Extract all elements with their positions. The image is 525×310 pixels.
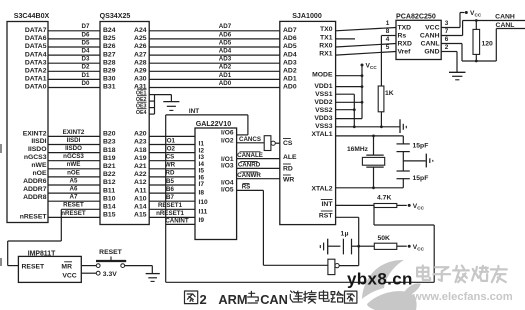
- wire row 5 (U2 A22 to U4 GAL): [149, 176, 195, 178]
- wire RS (U4 I/O5 to reset inverter): [237, 189, 264, 191]
- svg-text:RX0: RX0: [319, 42, 332, 49]
- svg-text:B19: B19: [103, 155, 116, 162]
- inverter gate U6 (CANCS to CS): [264, 136, 271, 151]
- wire nWE (CPU to U2): [48, 168, 100, 170]
- wire TX0 (U3 TX0 to U7 TXD pin1): [336, 28, 396, 31]
- ground (OE pins): [163, 101, 179, 103]
- wire row 8 (U2 A10 to U4 GAL): [149, 200, 195, 202]
- svg-text:6: 6: [445, 36, 449, 43]
- wire CANL net: [441, 43, 462, 45]
- svg-text:B31: B31: [103, 84, 116, 91]
- svg-text:A24: A24: [134, 27, 147, 34]
- svg-text:CANH: CANH: [420, 33, 440, 40]
- svg-text:INT: INT: [189, 108, 199, 115]
- wire nGCS3 (CPU to U2): [48, 160, 100, 162]
- svg-text:nGCS3: nGCS3: [63, 153, 84, 160]
- wire AD2 (U2 A29 to U3 AD2): [149, 70, 280, 72]
- svg-text:CC: CC: [370, 65, 377, 70]
- svg-text:CAN: CAN: [260, 292, 288, 307]
- wire U5 VCC to 3.3V: [81, 272, 96, 274]
- wire D4 (CPU DATA4 to U2 B27): [48, 54, 100, 56]
- svg-text:B5: B5: [166, 178, 174, 185]
- svg-text:VDD2: VDD2: [314, 99, 332, 106]
- svg-text:4.7K: 4.7K: [377, 195, 391, 202]
- svg-text:CC: CC: [417, 246, 424, 251]
- wires OE1-OE4 tie to ground: [149, 94, 154, 96]
- wire CANH net: [441, 35, 462, 37]
- wire VDD1: [336, 86, 362, 88]
- wire D1 (CPU DATA1 to U2 B30): [48, 78, 100, 80]
- wire button to ground: [125, 265, 153, 267]
- wire INT vertical at x=166: [165, 115, 167, 282]
- svg-text:A22: A22: [134, 171, 147, 178]
- wire XTAL2: [336, 187, 404, 189]
- resistor R4 50K (reset pull-up): [359, 245, 375, 247]
- svg-text:B27: B27: [103, 51, 116, 58]
- svg-text:AD1: AD1: [283, 76, 297, 83]
- svg-text:AD2: AD2: [283, 68, 297, 75]
- wire row 10 (U2 A15 to U4 GAL): [149, 216, 195, 218]
- svg-text:I10: I10: [199, 199, 208, 206]
- svg-text:I/O4: I/O4: [221, 179, 234, 186]
- svg-text:B12: B12: [103, 179, 116, 186]
- wire AD3 (U2 A28 to U3 AD3): [149, 62, 280, 64]
- svg-text:AD6: AD6: [283, 35, 297, 42]
- wire U7 VCC to supply: [441, 27, 460, 29]
- wire row 0 (U2 A20 to U4 GAL): [149, 135, 195, 137]
- svg-text:IO1: IO1: [165, 137, 176, 144]
- svg-text:DATA3: DATA3: [25, 59, 47, 66]
- svg-text:DATA0: DATA0: [25, 84, 47, 91]
- svg-text:B26: B26: [103, 43, 116, 50]
- wire AD7 (U2 A24 to U3 AD7): [149, 30, 280, 32]
- svg-text:16MHz: 16MHz: [347, 146, 369, 153]
- svg-text:IISDO: IISDO: [28, 146, 47, 153]
- svg-text:B22: B22: [103, 171, 116, 178]
- svg-text:D1: D1: [82, 72, 90, 79]
- ground (reset button): [146, 273, 160, 275]
- wire RST pin down to reset node: [336, 216, 359, 218]
- svg-text:RESET: RESET: [22, 264, 46, 271]
- wire AD0 (U2 A31 to U3 AD0): [149, 87, 280, 89]
- svg-text:I/O6: I/O6: [221, 130, 234, 137]
- svg-text:B29: B29: [103, 68, 116, 75]
- wire row 7 (U2 A11 to U4 GAL): [149, 192, 195, 194]
- svg-text:I/O3: I/O3: [221, 163, 234, 170]
- svg-text:A7: A7: [70, 194, 78, 201]
- svg-text:A18: A18: [134, 147, 147, 154]
- wire Rs pin to R2 1K: [381, 35, 396, 37]
- wire VSS2: [336, 109, 355, 111]
- svg-text:D2: D2: [82, 64, 90, 71]
- svg-text:D0: D0: [82, 80, 90, 87]
- svg-text:RS: RS: [242, 184, 251, 191]
- capacitor C3 1u (reset): [328, 245, 341, 247]
- IC U4 GAL22V10 (address decoder PLD): [195, 128, 237, 240]
- svg-text:GND: GND: [424, 49, 439, 56]
- svg-text:ybx8.cn: ybx8.cn: [347, 270, 413, 289]
- svg-text:OE4: OE4: [136, 110, 147, 116]
- svg-text:Rs: Rs: [398, 33, 407, 40]
- svg-text:AD0: AD0: [219, 80, 232, 87]
- svg-text:CANALE: CANALE: [237, 152, 263, 159]
- svg-text:4: 4: [386, 36, 390, 43]
- svg-text:GAL22V10: GAL22V10: [196, 120, 232, 128]
- svg-text:B24: B24: [103, 27, 116, 34]
- resistor R1 120 (CAN bus termination): [475, 19, 478, 22]
- svg-text:AD1: AD1: [219, 72, 232, 79]
- VCC symbol (INT pull-up): [408, 204, 411, 207]
- svg-text:AD6: AD6: [219, 31, 232, 38]
- svg-text:INT: INT: [322, 201, 334, 208]
- IC U2 QS34X25 (bus switch): [100, 22, 149, 225]
- svg-text:PCA82C250: PCA82C250: [396, 12, 436, 20]
- wire VCC rail to VDD pins: [361, 65, 363, 119]
- wire D5 (CPU DATA5 to U2 B26): [48, 46, 100, 48]
- svg-text:A10: A10: [134, 195, 147, 202]
- svg-text:nRESET: nRESET: [20, 213, 48, 220]
- svg-text:B18: B18: [103, 147, 116, 154]
- svg-text:RST: RST: [319, 213, 333, 220]
- svg-text:D3: D3: [82, 56, 90, 63]
- svg-text:nRESET1: nRESET1: [156, 210, 184, 217]
- wire VDD2: [336, 101, 362, 103]
- wire D0 (CPU DATA0 to U2 B31): [48, 87, 100, 89]
- wire A7 (CPU to U2): [48, 200, 100, 202]
- svg-text:DATA5: DATA5: [25, 43, 47, 50]
- svg-text:CS: CS: [283, 140, 293, 147]
- svg-text:A15: A15: [134, 212, 147, 219]
- svg-text:B20: B20: [103, 131, 116, 138]
- svg-text:MODE: MODE: [312, 72, 333, 79]
- svg-text:ARM: ARM: [218, 292, 247, 307]
- svg-text:B25: B25: [103, 35, 116, 42]
- svg-text:nOE: nOE: [67, 169, 80, 176]
- wire AD4 (U2 A27 to U3 AD4): [149, 54, 280, 56]
- svg-text:MR: MR: [61, 264, 72, 271]
- wire EXINT2 (CPU to U2): [48, 135, 100, 137]
- wire VSS1: [336, 93, 355, 95]
- svg-text:nWE: nWE: [31, 162, 47, 169]
- svg-text:WR: WR: [165, 162, 176, 169]
- svg-text:15pF: 15pF: [413, 175, 429, 182]
- svg-text:IISDI: IISDI: [31, 138, 46, 145]
- svg-text:I/O5: I/O5: [221, 187, 234, 194]
- svg-text:A21: A21: [134, 163, 147, 170]
- svg-text:ADDR6: ADDR6: [23, 178, 47, 185]
- VCC symbol (reset pull-up): [408, 245, 411, 248]
- svg-text:A26: A26: [134, 43, 147, 50]
- svg-text:A5: A5: [70, 177, 78, 184]
- svg-text:RXD: RXD: [398, 41, 412, 48]
- svg-text:AD4: AD4: [283, 51, 297, 58]
- wire row 2 (U2 A18 to U4 GAL): [149, 152, 195, 154]
- svg-text:120: 120: [482, 41, 494, 48]
- svg-text:B7: B7: [166, 194, 174, 201]
- wire CANWR (U4 I/O4 to U3 WR): [237, 178, 280, 180]
- svg-text:CANH: CANH: [495, 14, 515, 21]
- wire D7 (CPU DATA7 to U2 B24): [48, 30, 100, 32]
- wire RX1 (U3 RX1 to U7 Vref pin5): [336, 52, 396, 56]
- ground (VSS, right-facing): [399, 119, 401, 133]
- svg-text:EXINT2: EXINT2: [63, 129, 85, 136]
- wire row 9 (U2 A14 to U4 GAL): [149, 208, 195, 210]
- svg-text:B21: B21: [103, 163, 116, 170]
- svg-text:I9: I9: [199, 217, 205, 224]
- svg-text:VCC: VCC: [62, 273, 76, 280]
- svg-text:CANWR: CANWR: [237, 172, 261, 179]
- svg-text:1K: 1K: [385, 90, 394, 97]
- svg-text:7: 7: [445, 28, 449, 35]
- pushbutton S1 RESET: [96, 264, 100, 268]
- svg-text:A14: A14: [134, 204, 147, 211]
- svg-text:TX0: TX0: [320, 26, 333, 33]
- resistor R2 1K (Rs slope control): [378, 86, 384, 112]
- wire U5 MR to reset button: [81, 265, 96, 267]
- svg-text:A20: A20: [134, 131, 147, 138]
- svg-text:RESET1: RESET1: [158, 202, 183, 209]
- wire IISDO (CPU to U2): [48, 152, 100, 154]
- svg-text:DATA4: DATA4: [25, 51, 47, 58]
- svg-text:A27: A27: [134, 51, 147, 58]
- wire row 6 (U2 A12 to U4 GAL): [149, 184, 195, 186]
- svg-text:3.3V: 3.3V: [103, 271, 117, 278]
- svg-text:I7: I7: [199, 181, 205, 188]
- VCC symbol (MODE/VDD): [361, 64, 364, 67]
- wire TX1 stub: [336, 38, 355, 40]
- wire CANRD (U4 I/O3 to U3 RD): [237, 167, 280, 169]
- svg-text:μ: μ: [345, 231, 349, 238]
- svg-text:RESET: RESET: [99, 249, 123, 256]
- svg-text:A28: A28: [134, 59, 147, 66]
- svg-text:VDD3: VDD3: [314, 115, 332, 122]
- svg-text:A11: A11: [134, 187, 146, 194]
- svg-text:AD3: AD3: [283, 59, 297, 66]
- svg-text:WR: WR: [283, 177, 294, 184]
- svg-text:XTAL2: XTAL2: [311, 186, 332, 193]
- wire XTAL1: [336, 135, 404, 137]
- wire VSS3 / ground rail: [336, 126, 400, 128]
- watermark text dianzifashaoyou: [417, 266, 430, 280]
- wire row 4 (U2 A21 to U4 GAL): [149, 168, 195, 170]
- svg-text:I/O2: I/O2: [221, 138, 234, 145]
- svg-text:8: 8: [386, 28, 390, 35]
- svg-text:AD3: AD3: [219, 56, 232, 63]
- svg-text:CANL: CANL: [496, 22, 515, 29]
- IC U1 S3C44B0X (ARM CPU): [7, 22, 48, 223]
- svg-text:ADDR8: ADDR8: [23, 194, 47, 201]
- caption fig2: [185, 291, 198, 304]
- wire INT (U4 I/O6 feedback net): [237, 134, 248, 136]
- svg-text:AD5: AD5: [283, 43, 297, 50]
- wire AD5 (U2 A26 to U3 AD5): [149, 46, 280, 48]
- wire CANCS (U4 I/O2 to inverter): [237, 142, 265, 144]
- wire D2 (CPU DATA2 to U2 B29): [48, 70, 100, 72]
- svg-text:nRESET: nRESET: [61, 210, 86, 217]
- svg-text:RESET: RESET: [63, 202, 84, 209]
- IC U5 IMP811T (reset supervisor): [18, 256, 81, 282]
- svg-text:3: 3: [445, 20, 449, 27]
- svg-text:XTAL1: XTAL1: [311, 131, 332, 138]
- svg-text:D7: D7: [82, 23, 90, 30]
- svg-text:RD: RD: [166, 170, 175, 177]
- wire INT pin to R3: [336, 204, 374, 206]
- svg-text:ADDR7: ADDR7: [23, 186, 47, 193]
- wire CANALE (U4 I/O1 to U3 ALE): [237, 158, 280, 160]
- wire IISDI (CPU to U2): [48, 144, 100, 146]
- svg-text:CS: CS: [166, 154, 175, 161]
- inverter gate U8 (RS to RST): [263, 264, 328, 266]
- ground (reset RC, left-facing): [327, 239, 329, 255]
- svg-text:50K: 50K: [378, 235, 391, 242]
- svg-text:A23: A23: [134, 139, 147, 146]
- svg-text:CANL: CANL: [421, 41, 440, 48]
- svg-text:SJA1000: SJA1000: [292, 12, 322, 20]
- svg-text:VCC: VCC: [425, 25, 439, 32]
- wire U5 RESET output jog up to RESET net: [8, 265, 19, 267]
- wire D6 (CPU DATA6 to U2 B25): [48, 38, 100, 40]
- wire nRESET (CPU to U2): [48, 216, 100, 218]
- svg-text:IO2: IO2: [165, 145, 176, 152]
- wire AD6 (U2 A25 to U3 AD6): [149, 38, 280, 40]
- svg-text:AD0: AD0: [283, 84, 297, 91]
- svg-text:B30: B30: [103, 76, 116, 83]
- wire row 1 (U2 A23 to U4 GAL): [149, 144, 195, 146]
- svg-text:D5: D5: [82, 39, 90, 46]
- watermark logo circle: [362, 260, 404, 299]
- svg-text:RD: RD: [283, 166, 293, 173]
- svg-text:2: 2: [445, 44, 449, 51]
- svg-text:www.elecfans.com: www.elecfans.com: [412, 291, 513, 303]
- wire CANINT (INT net to U4 I9): [166, 223, 195, 225]
- svg-text:A29: A29: [134, 68, 147, 75]
- svg-text:DATA7: DATA7: [25, 27, 47, 34]
- svg-text:D6: D6: [82, 31, 90, 38]
- wire INT bottom run: [166, 281, 435, 283]
- svg-text:IISDI: IISDI: [67, 137, 81, 144]
- svg-text:VDD1: VDD1: [314, 83, 332, 90]
- wire AD1 (U2 A30 to U3 AD1): [149, 78, 280, 80]
- capacitor C2 15pF (XTAL2): [402, 152, 404, 171]
- svg-text:VSS3: VSS3: [315, 123, 333, 130]
- svg-text:CANINT: CANINT: [165, 217, 189, 224]
- svg-text:B10: B10: [103, 195, 116, 202]
- svg-text:CC: CC: [417, 206, 424, 211]
- ground (crystal caps, right-facing): [425, 154, 427, 168]
- svg-text:nWE: nWE: [67, 161, 81, 168]
- svg-text:Vref: Vref: [398, 49, 412, 56]
- svg-text:AD7: AD7: [283, 27, 297, 34]
- wire D3 (CPU DATA3 to U2 B28): [48, 62, 100, 64]
- svg-text:B14: B14: [103, 204, 116, 211]
- svg-text:DATA1: DATA1: [25, 76, 47, 83]
- wire A6 (CPU to U2): [48, 192, 100, 194]
- wire caps midpoint to ground: [403, 160, 425, 162]
- svg-text:B28: B28: [103, 59, 116, 66]
- svg-text:15pF: 15pF: [413, 143, 429, 150]
- svg-text:A6: A6: [70, 186, 78, 193]
- svg-text:AD7: AD7: [219, 23, 232, 30]
- scan smudge marks: [0, 144, 2, 153]
- svg-text:B15: B15: [103, 212, 116, 219]
- VCC symbol (U7): [465, 11, 468, 14]
- wire VDD3: [336, 118, 362, 120]
- capacitor C1 15pF (XTAL1): [402, 136, 404, 144]
- svg-text:B23: B23: [103, 139, 116, 146]
- svg-text:I8: I8: [199, 190, 205, 197]
- svg-text:ALE: ALE: [283, 154, 297, 161]
- svg-text:CANRD: CANRD: [238, 162, 261, 169]
- svg-text:DATA6: DATA6: [25, 35, 47, 42]
- svg-text:D4: D4: [82, 48, 90, 55]
- wire RX0 (U3 RX0 to U7 RXD pin4): [336, 44, 396, 48]
- svg-text:B11: B11: [103, 187, 115, 194]
- svg-text:B6: B6: [166, 186, 174, 193]
- svg-text:AD4: AD4: [219, 48, 232, 55]
- wire MODE: [336, 75, 362, 77]
- wire row 3 (U2 A19 to U4 GAL): [149, 160, 195, 162]
- svg-text:A12: A12: [134, 179, 147, 186]
- svg-text:S3C44B0X: S3C44B0X: [14, 12, 50, 20]
- svg-text:TX1: TX1: [320, 34, 333, 41]
- svg-text:nOE: nOE: [33, 170, 47, 177]
- svg-text:EXINT2: EXINT2: [23, 130, 47, 137]
- svg-text:AD2: AD2: [219, 64, 232, 71]
- svg-text:1: 1: [386, 20, 390, 27]
- svg-text:5: 5: [386, 44, 390, 51]
- svg-text:IMP811T: IMP811T: [28, 250, 56, 257]
- wire U7 GND to ground: [441, 51, 457, 53]
- svg-text:VSS2: VSS2: [315, 107, 333, 114]
- svg-text:AD5: AD5: [219, 39, 232, 46]
- svg-text:RX1: RX1: [319, 51, 332, 58]
- svg-text:IISDO: IISDO: [65, 145, 82, 152]
- svg-text:nGCS3: nGCS3: [24, 154, 47, 161]
- svg-text:I11: I11: [199, 208, 208, 215]
- svg-text:VSS1: VSS1: [315, 91, 333, 98]
- wire RESET (from U5 IMP811T to U2 B14): [61, 208, 100, 210]
- crystal Y1 16MHz: [373, 136, 375, 155]
- svg-text:CANCS: CANCS: [239, 136, 261, 143]
- IC U7 PCA82C250 (CAN transceiver): [396, 20, 441, 59]
- ground (U7): [449, 71, 466, 73]
- IC U3 SJA1000 (CAN controller): [280, 21, 336, 224]
- wire INT right riser: [433, 225, 435, 282]
- svg-text:TXD: TXD: [398, 25, 412, 32]
- wire nOE (CPU to U2): [48, 176, 100, 178]
- svg-text:A30: A30: [134, 76, 147, 83]
- svg-text:A25: A25: [134, 35, 147, 42]
- svg-text:DATA2: DATA2: [25, 68, 47, 75]
- svg-text:QS34X25: QS34X25: [100, 12, 131, 20]
- svg-text:2: 2: [200, 292, 207, 307]
- svg-text:A19: A19: [134, 155, 147, 162]
- svg-text:CC: CC: [475, 13, 482, 18]
- wire A5 (CPU to U2): [48, 184, 100, 186]
